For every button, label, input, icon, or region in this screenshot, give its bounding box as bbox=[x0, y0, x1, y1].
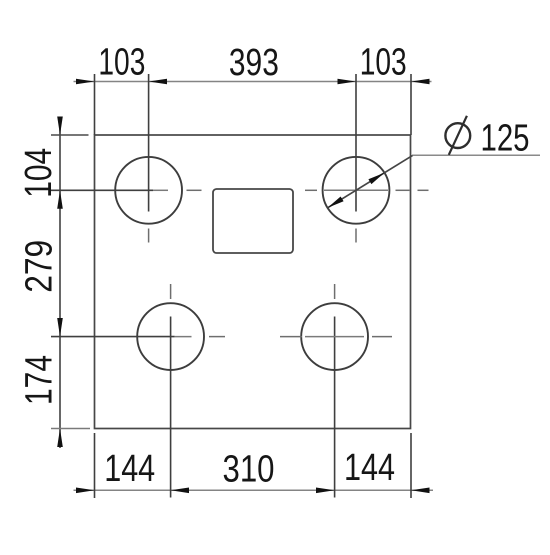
arrow top at plate right edge bbox=[411, 79, 430, 85]
svg-text:103: 103 bbox=[360, 41, 407, 83]
arrow bottom at hole BL centerline bbox=[171, 488, 189, 494]
label 279 left bbox=[19, 240, 61, 293]
label 174 left bbox=[19, 355, 61, 405]
svg-text:310: 310 bbox=[223, 449, 275, 491]
svg-text:103: 103 bbox=[98, 41, 145, 83]
arrow bottom at hole BR centerline bbox=[316, 488, 335, 494]
svg-text:144: 144 bbox=[344, 447, 395, 489]
arrow top at hole TR centerline bbox=[338, 79, 357, 85]
hole top-left bbox=[115, 157, 182, 224]
hole bottom-left bbox=[137, 303, 204, 370]
diameter arrow upper-right bbox=[368, 173, 384, 184]
centerline vertical hole top-left bbox=[148, 74, 150, 243]
label 103 top-right bbox=[360, 41, 407, 83]
hole bottom-right bbox=[301, 303, 368, 370]
arrow top at hole TL centerline bbox=[149, 79, 167, 85]
centerline vertical hole top-right bbox=[355, 74, 357, 243]
label 393 top-middle bbox=[229, 42, 279, 84]
arrow bottom at plate left edge bbox=[76, 488, 95, 494]
label 104 left bbox=[18, 148, 60, 198]
centerline vertical hole bottom-left bbox=[170, 284, 172, 498]
arrow left at plate bottom edge bbox=[57, 429, 63, 448]
arrow left at plate top edge bbox=[57, 117, 63, 136]
arrow left at top hole row bbox=[57, 190, 63, 209]
arrow left at bottom hole row bbox=[57, 318, 63, 337]
hole top-right bbox=[323, 157, 390, 224]
label 144 bottom-right bbox=[344, 447, 395, 489]
svg-text:125: 125 bbox=[481, 118, 530, 160]
centerline horizontal hole top-left row bbox=[51, 189, 202, 191]
extension line plate top edge left bbox=[51, 134, 89, 136]
diameter leader diagonal bbox=[328, 155, 413, 208]
label 144 bottom-left bbox=[104, 448, 155, 490]
label 125 bbox=[481, 118, 530, 160]
svg-text:174: 174 bbox=[19, 355, 61, 405]
label 103 top-left bbox=[98, 41, 145, 83]
label 310 bottom-middle bbox=[223, 449, 275, 491]
svg-text:144: 144 bbox=[104, 448, 155, 490]
centerline horizontal hole top-right row bbox=[305, 189, 429, 191]
top dimension line bbox=[74, 81, 432, 83]
extension line plate bottom-right corner bbox=[410, 433, 412, 498]
diameter arrow lower-left bbox=[328, 197, 344, 208]
arrow top at plate left edge bbox=[76, 79, 95, 85]
svg-text:279: 279 bbox=[19, 240, 61, 293]
svg-text:104: 104 bbox=[18, 148, 60, 198]
diameter leader horizontal bbox=[413, 154, 541, 156]
extension line plate bottom-left corner bbox=[94, 433, 96, 498]
centerline horizontal hole bottom-left row bbox=[51, 336, 225, 338]
left dimension line bbox=[59, 117, 61, 448]
bottom dimension line bbox=[74, 489, 434, 491]
central rectangle bbox=[213, 189, 293, 253]
extension line plate bottom edge left bbox=[51, 428, 90, 430]
extension line plate top-right corner bbox=[410, 74, 412, 135]
extension line plate top-left corner bbox=[94, 74, 96, 135]
centerline horizontal hole bottom-right row bbox=[280, 336, 392, 338]
plate outline bbox=[95, 135, 411, 429]
arrow bottom at plate right edge bbox=[411, 488, 430, 494]
svg-text:393: 393 bbox=[229, 42, 279, 84]
diameter symbol bbox=[445, 116, 470, 155]
centerline vertical hole bottom-right bbox=[334, 284, 336, 498]
